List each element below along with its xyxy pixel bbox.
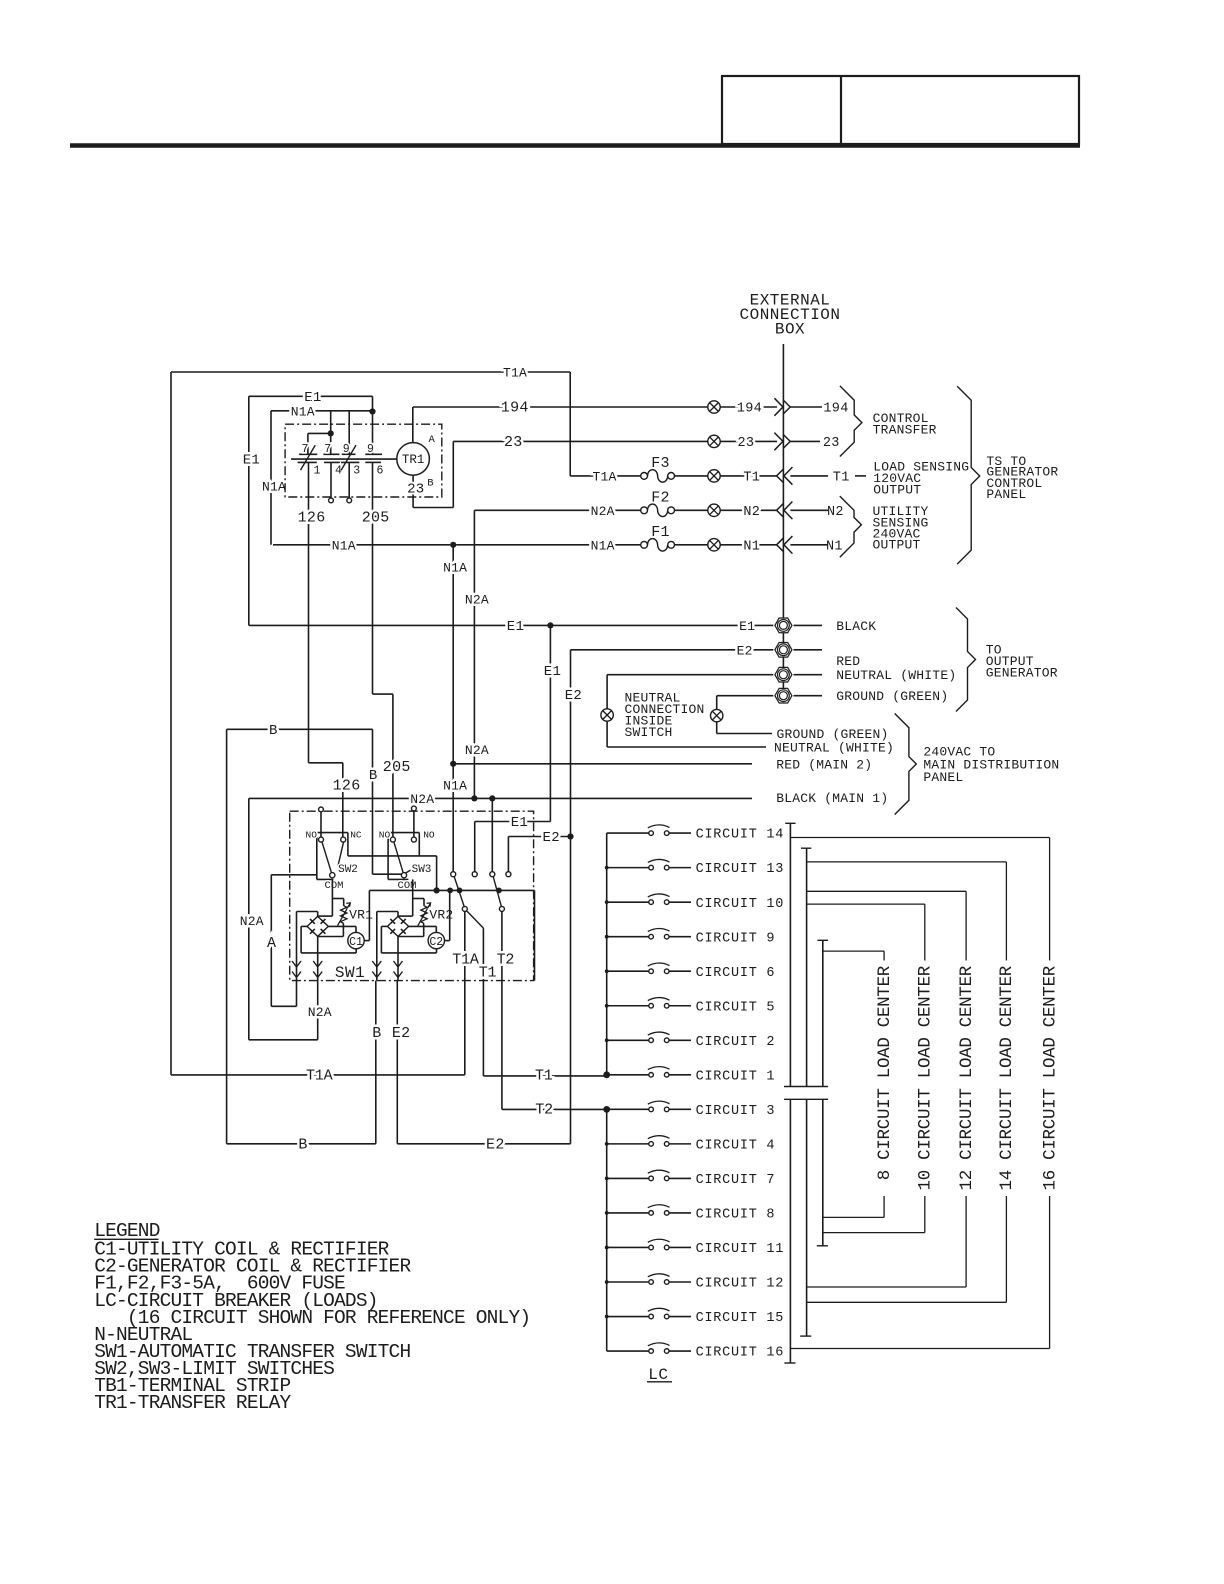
svg-text:CIRCUIT 14: CIRCUIT 14 [696, 828, 785, 843]
svg-text:NC: NC [350, 829, 362, 840]
svg-text:23: 23 [823, 436, 840, 451]
svg-text:NO: NO [423, 829, 435, 840]
svg-text:F2: F2 [651, 489, 670, 506]
svg-text:E1: E1 [544, 664, 561, 680]
svg-text:194: 194 [501, 400, 529, 417]
svg-text:E1: E1 [243, 452, 260, 468]
svg-text:126: 126 [333, 777, 361, 794]
svg-text:CIRCUIT 10: CIRCUIT 10 [696, 897, 785, 912]
svg-text:E1: E1 [739, 619, 755, 634]
svg-text:205: 205 [362, 509, 390, 526]
svg-text:GROUND (GREEN): GROUND (GREEN) [777, 727, 889, 742]
svg-text:CIRCUIT 7: CIRCUIT 7 [696, 1173, 776, 1188]
svg-text:7: 7 [324, 443, 331, 456]
svg-text:BLACK (MAIN 1): BLACK (MAIN 1) [776, 791, 888, 806]
svg-text:8 CIRCUIT LOAD CENTER: 8 CIRCUIT LOAD CENTER [875, 965, 895, 1180]
svg-text:N1A: N1A [291, 404, 315, 419]
svg-text:CIRCUIT 13: CIRCUIT 13 [696, 862, 785, 877]
svg-text:CIRCUIT 12: CIRCUIT 12 [696, 1277, 785, 1292]
svg-text:C2: C2 [429, 936, 443, 949]
svg-text:N2: N2 [743, 505, 760, 520]
svg-text:SW3: SW3 [412, 864, 432, 876]
svg-text:COM: COM [325, 880, 344, 892]
svg-text:SWITCH: SWITCH [625, 725, 673, 740]
svg-text:23: 23 [738, 436, 755, 451]
svg-text:B: B [372, 1025, 381, 1042]
svg-text:N2A: N2A [240, 914, 264, 929]
svg-text:N1A: N1A [443, 778, 467, 793]
svg-text:E2: E2 [565, 688, 582, 704]
svg-text:RED: RED [836, 654, 860, 669]
svg-text:E2: E2 [392, 1025, 410, 1042]
svg-text:16 CIRCUIT LOAD CENTER: 16 CIRCUIT LOAD CENTER [1040, 965, 1060, 1190]
svg-text:F3: F3 [651, 455, 670, 472]
svg-text:N1A: N1A [262, 479, 286, 494]
svg-text:SW1: SW1 [335, 964, 365, 982]
svg-text:TR1-TRANSFER RELAY: TR1-TRANSFER RELAY [94, 1392, 291, 1414]
svg-text:CIRCUIT 1: CIRCUIT 1 [696, 1069, 776, 1084]
svg-text:BOX: BOX [775, 321, 805, 339]
svg-text:126: 126 [298, 509, 326, 526]
svg-text:N2: N2 [827, 505, 844, 520]
svg-text:SW2: SW2 [338, 864, 358, 876]
svg-text:194: 194 [737, 402, 762, 417]
svg-text:RED (MAIN 2): RED (MAIN 2) [776, 758, 872, 773]
svg-text:CIRCUIT 15: CIRCUIT 15 [696, 1311, 785, 1326]
svg-text:N1A: N1A [332, 538, 356, 553]
svg-text:NEUTRAL (WHITE): NEUTRAL (WHITE) [836, 668, 956, 683]
svg-text:194: 194 [823, 402, 848, 417]
svg-text:T1: T1 [743, 470, 760, 485]
svg-text:6: 6 [377, 465, 384, 478]
svg-text:CIRCUIT 9: CIRCUIT 9 [696, 931, 776, 946]
svg-text:205: 205 [383, 759, 411, 776]
svg-text:4: 4 [335, 465, 342, 478]
svg-text:GENERATOR: GENERATOR [986, 665, 1058, 680]
svg-text:10 CIRCUIT LOAD CENTER: 10 CIRCUIT LOAD CENTER [916, 965, 936, 1190]
svg-text:CIRCUIT 2: CIRCUIT 2 [696, 1035, 776, 1050]
svg-text:CIRCUIT 3: CIRCUIT 3 [696, 1104, 776, 1119]
svg-text:CIRCUIT 16: CIRCUIT 16 [696, 1346, 785, 1361]
svg-text:T1A: T1A [306, 1067, 333, 1084]
svg-text:1: 1 [314, 465, 321, 478]
svg-text:PANEL: PANEL [923, 770, 963, 785]
svg-text:B: B [369, 768, 378, 784]
svg-text:T1A: T1A [452, 952, 479, 969]
svg-text:N1: N1 [743, 539, 760, 554]
svg-text:N2A: N2A [465, 743, 489, 758]
svg-text:CIRCUIT 4: CIRCUIT 4 [696, 1138, 776, 1153]
svg-text:B: B [269, 723, 278, 739]
svg-text:A: A [429, 434, 436, 446]
svg-text:CIRCUIT 8: CIRCUIT 8 [696, 1208, 776, 1223]
svg-text:N2A: N2A [308, 1005, 332, 1020]
svg-text:CIRCUIT 5: CIRCUIT 5 [696, 1000, 776, 1015]
svg-text:23: 23 [504, 434, 523, 451]
svg-text:NEUTRAL (WHITE): NEUTRAL (WHITE) [774, 741, 894, 756]
svg-text:3: 3 [353, 465, 360, 478]
svg-text:NO: NO [379, 829, 391, 840]
svg-text:N2A: N2A [410, 792, 434, 807]
svg-text:N1A: N1A [591, 538, 615, 553]
svg-text:OUTPUT: OUTPUT [873, 483, 921, 498]
svg-text:PANEL: PANEL [986, 487, 1026, 502]
svg-text:7: 7 [302, 443, 309, 456]
svg-text:N2A: N2A [465, 592, 489, 607]
svg-text:F1: F1 [651, 524, 670, 541]
svg-text:C1: C1 [349, 936, 363, 949]
svg-text:OUTPUT: OUTPUT [873, 538, 921, 553]
svg-text:E2: E2 [737, 643, 753, 658]
svg-text:T1A: T1A [593, 469, 617, 484]
svg-text:12 CIRCUIT LOAD CENTER: 12 CIRCUIT LOAD CENTER [957, 965, 977, 1190]
svg-text:23: 23 [407, 481, 424, 497]
svg-text:CIRCUIT 6: CIRCUIT 6 [696, 966, 776, 981]
svg-text:T2: T2 [497, 952, 515, 969]
svg-text:T2: T2 [535, 1102, 553, 1119]
svg-text:E2: E2 [486, 1137, 505, 1154]
svg-text:TR1: TR1 [402, 453, 425, 467]
svg-text:B: B [427, 478, 433, 490]
svg-text:14 CIRCUIT LOAD CENTER: 14 CIRCUIT LOAD CENTER [997, 965, 1017, 1190]
svg-text:A: A [267, 935, 276, 952]
svg-text:TRANSFER: TRANSFER [873, 423, 937, 438]
svg-text:T1: T1 [479, 965, 497, 982]
svg-text:NO: NO [306, 829, 318, 840]
svg-text:T1A: T1A [503, 366, 527, 381]
svg-text:N1: N1 [826, 539, 843, 554]
svg-text:N1A: N1A [443, 561, 467, 576]
svg-text:GROUND (GREEN): GROUND (GREEN) [836, 689, 948, 704]
svg-text:E1: E1 [507, 619, 524, 635]
svg-text:E1: E1 [511, 815, 528, 831]
svg-text:B: B [298, 1137, 307, 1154]
svg-text:N2A: N2A [591, 504, 615, 519]
svg-text:E2: E2 [543, 830, 560, 846]
svg-text:T1: T1 [535, 1068, 553, 1085]
svg-text:T1: T1 [833, 470, 850, 485]
svg-text:BLACK: BLACK [836, 619, 876, 634]
svg-text:9: 9 [367, 443, 374, 456]
svg-text:9: 9 [343, 443, 350, 456]
svg-text:CIRCUIT 11: CIRCUIT 11 [696, 1242, 785, 1257]
